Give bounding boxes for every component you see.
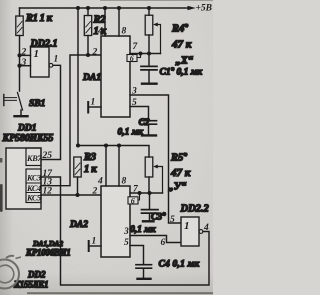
svg-text:8: 8 [122,27,127,37]
left edge scan blob [0,184,3,212]
left edge scan dash [0,158,2,163]
svg-text:0,1 мк: 0,1 мк [118,128,145,138]
inversion bubble DD2.1 output [49,63,53,67]
potentiometer R5 [145,157,162,193]
svg-text:DA2: DA2 [69,220,88,230]
svg-text:4: 4 [203,223,209,233]
svg-text:47 к: 47 к [170,167,191,179]
junction dot DD2.1 input 2 [17,53,21,57]
wire DD1 pin 17 PC3 to DD2.2 output pin 4 [41,177,209,285]
ground C4 [138,278,151,280]
junction dot rail/DA1 pin8 [117,6,121,10]
svg-text:SB1: SB1 [29,99,45,109]
svg-text:„У“: „У“ [169,182,188,193]
logic gate DD2.1 [31,47,50,77]
junction dot lower rail left [76,143,80,147]
wire +5 feed to lower rail [77,8,79,146]
wire DA1 pin 4 [104,8,106,36]
svg-text:R1 1 к: R1 1 к [25,13,53,24]
wire DA1 pin 8 [118,8,120,36]
wire DD1 pin 13 PC4 to DA1 trigger pin 2 [41,55,101,186]
wire DA2 pins 7/6 node [130,192,163,194]
svg-text:6: 6 [161,238,166,248]
resistor R3 [74,157,81,195]
svg-text:КС5: КС5 [26,194,41,203]
svg-text:4: 4 [97,177,103,187]
svg-text:КР1006ВИ1: КР1006ВИ1 [25,248,70,258]
junction dot lower rail DA2 pin4 [104,143,108,147]
svg-text:6: 6 [131,196,135,205]
bottom scan border [27,292,213,294]
logic gate DD2.2 [181,217,199,246]
svg-text:3: 3 [21,58,27,68]
svg-text:C4 0,1 мк: C4 0,1 мк [159,260,201,270]
junction dot rail/R4 [147,6,151,10]
resistor R2 [84,8,91,55]
svg-text:2: 2 [92,48,98,58]
junction dot rail/DA1 pin4 [103,6,107,10]
svg-text:1: 1 [92,237,97,247]
wire DA2 pin 4 [105,146,107,187]
svg-text:C1* 0,1 мк: C1* 0,1 мк [160,67,204,78]
paper background [0,0,213,295]
svg-text:КС3: КС3 [26,173,41,182]
pushbutton SB1 [4,93,23,115]
IC timer DA1 [101,36,130,117]
wire DD2.1 input pin 3 [20,65,31,67]
svg-text:+5В: +5В [196,4,213,14]
ground DA1 pin 1 [88,102,101,113]
wire DD2.1 input pin 2 [20,54,31,56]
junction dot R4/C1 node [147,52,151,56]
svg-text:КС4: КС4 [26,184,41,193]
svg-text:КР580ИК55: КР580ИК55 [2,133,54,144]
svg-text:1 к: 1 к [84,164,97,175]
wire DA1 output pin 3 to DD2.2 pin 5 [130,95,181,223]
top edge scan line [100,0,213,2]
junction dot lower rail DA2 pin8 [117,143,121,147]
junction dot R3 bottom [75,193,79,197]
ground SB1 [15,115,28,117]
potentiometer R4 [145,8,160,54]
wire R1 to DD2.1 inputs and SB1 [19,36,21,92]
wire DA2 pin 8 [118,146,120,187]
svg-text:2: 2 [92,187,98,197]
wire DD2.1 output pin 1 to DD1 pin 25 [41,65,61,159]
ground DA2 pin 1 [89,241,101,251]
svg-text:R2: R2 [93,15,107,26]
svg-text:DD2.2: DD2.2 [180,204,210,215]
ground C2 [142,134,156,136]
svg-text:3: 3 [131,87,137,97]
wire DA2 output pin 3 to DD2.2 pin 6 [130,236,181,243]
IC timer DA2 [101,186,130,257]
svg-text:„X“: „X“ [176,56,194,67]
wire lower +5 rail to R5 [78,146,149,158]
ground C3 [143,220,154,222]
svg-text:DD2: DD2 [27,270,46,280]
+5V arrow [188,6,196,11]
svg-text:3: 3 [123,227,129,237]
capacitor C4 [130,246,152,278]
inversion bubble DD2.2 output [199,230,203,234]
junction dot rail/R2 [86,6,90,10]
svg-text:1: 1 [54,55,59,65]
wire DD1 pin 12 PC5 to DA2 trigger pin 2 [41,194,101,196]
IC DD1 КР580ИК55 [6,148,42,209]
svg-text:0,1 мк: 0,1 мк [130,225,157,235]
svg-text:1: 1 [34,48,40,60]
svg-text:1: 1 [184,220,190,232]
svg-text:R3: R3 [83,152,96,163]
svg-text:1: 1 [91,98,96,108]
pin 6 box DA2 [128,193,140,205]
ground C1 [142,82,157,84]
junction dot R2 bottom / DA1 pin 2 [86,53,90,57]
svg-text:25: 25 [42,151,53,161]
svg-text:47 к: 47 к [171,39,192,51]
svg-text:КВ7: КВ7 [26,154,42,163]
svg-text:5: 5 [124,238,129,248]
junction dot pin6 link DA2 [138,191,142,195]
wire +5V top rail [20,7,189,9]
svg-text:8: 8 [122,177,127,187]
capacitor C3 [142,193,159,220]
junction dot R5/C3 node [148,191,152,195]
svg-text:2: 2 [21,48,27,58]
capacitor C2 [130,107,157,135]
svg-text:5: 5 [170,215,175,225]
junction dot DD2.1 input 3 [17,64,21,68]
svg-text:6: 6 [130,54,134,63]
svg-text:C2: C2 [139,118,150,128]
junction dot pin6 link [139,52,143,56]
pin 6 box DA1 [127,54,141,64]
junction dot rail/+5 feed [76,6,80,10]
svg-text:DA1: DA1 [82,73,101,83]
resistor R1 [16,8,23,36]
svg-text:4: 4 [97,27,103,37]
stamp circle bottom left [0,256,21,289]
wire DA1 pins 7/6 node [130,53,161,55]
capacitor C1 [141,54,157,83]
